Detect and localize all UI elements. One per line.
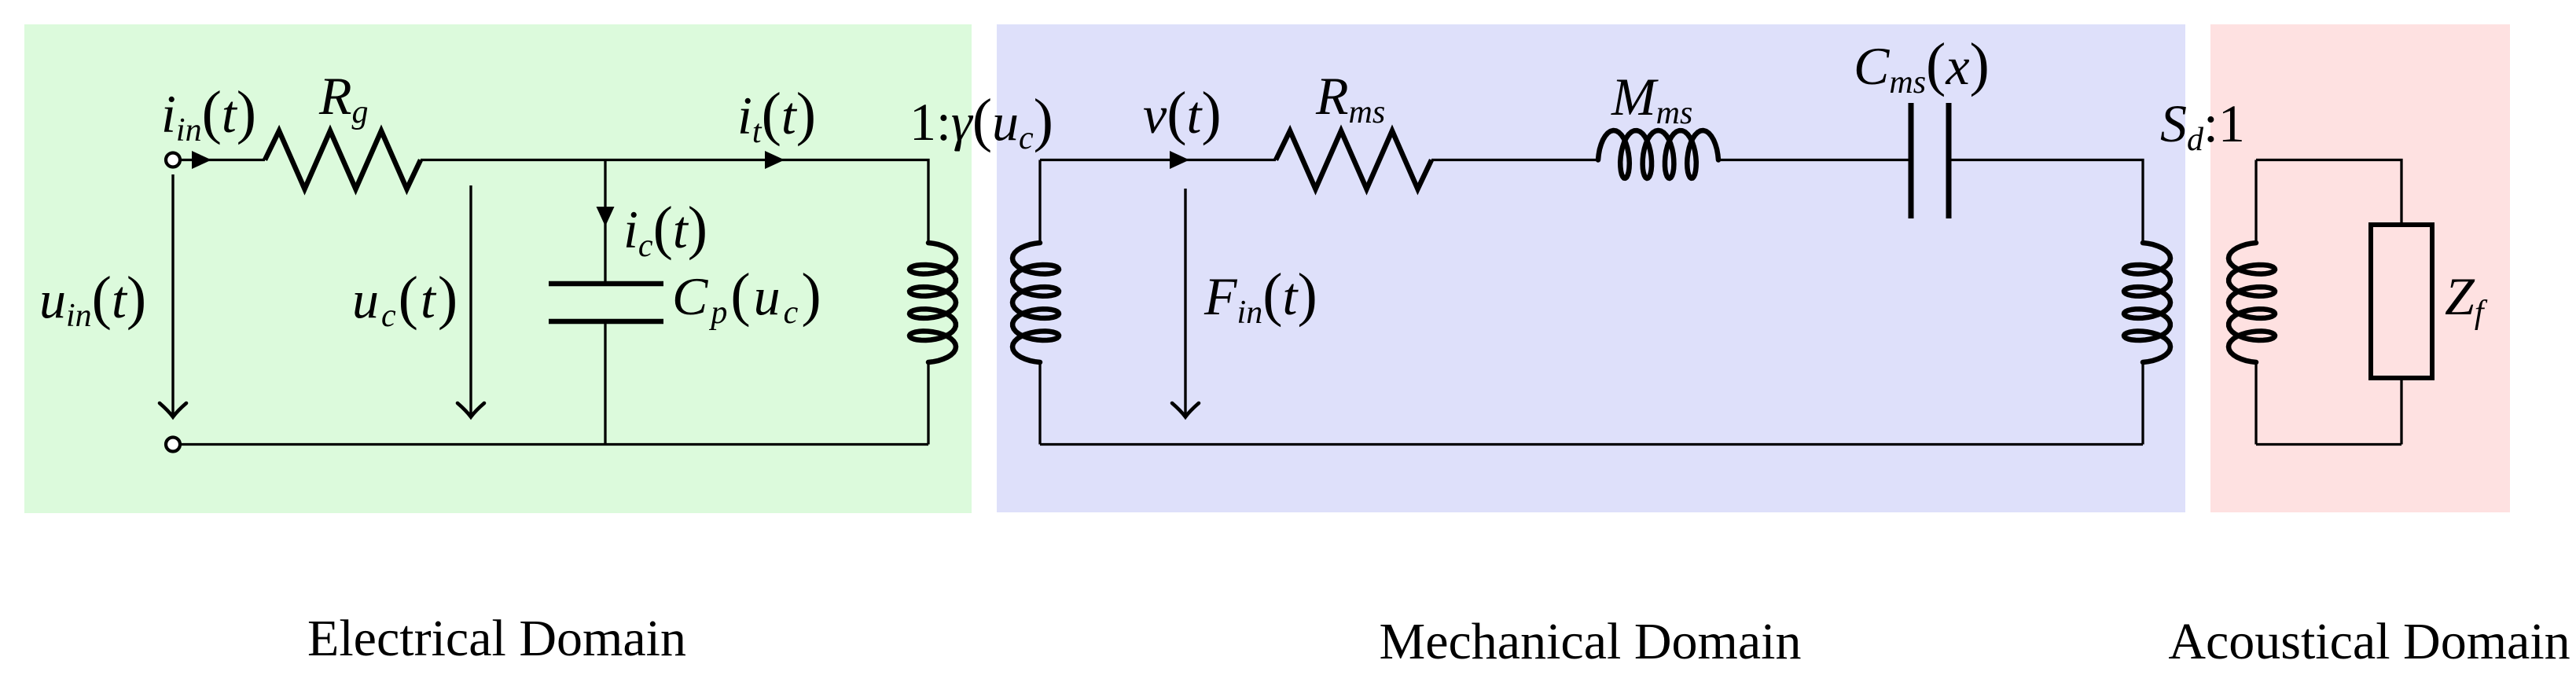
svg-text:it​(t): it​(t) <box>737 81 816 150</box>
svg-text:ic​(t): ic​(t) <box>623 195 707 264</box>
svg-text:v(t): v(t) <box>1143 80 1222 146</box>
svg-text:Mechanical Domain: Mechanical Domain <box>1380 613 1802 670</box>
svg-text:uin​(t): uin​(t) <box>39 265 146 334</box>
svg-text:iin​(t): iin​(t) <box>161 79 256 149</box>
svg-text:Electrical Domain: Electrical Domain <box>307 610 686 667</box>
svg-text:Cp​(uc​): Cp​(uc​) <box>672 262 825 331</box>
svg-text:uc​(t): uc​(t) <box>352 265 460 334</box>
svg-text:Sd​:1: Sd​:1 <box>2160 94 2245 158</box>
svg-text:Acoustical Domain: Acoustical Domain <box>2168 613 2570 670</box>
